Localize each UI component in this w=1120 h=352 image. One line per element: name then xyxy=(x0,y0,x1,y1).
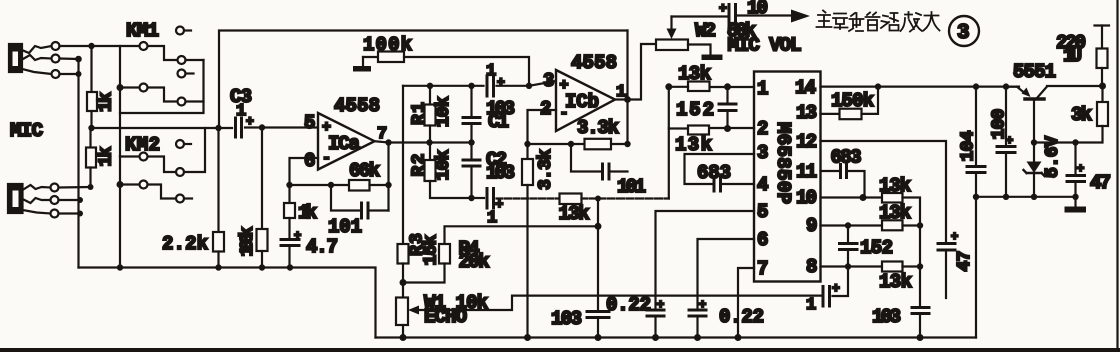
node echo row junction xyxy=(468,195,601,230)
svg-text:20k: 20k xyxy=(459,251,490,273)
svg-text:R2: R2 xyxy=(410,154,430,177)
wire U1a output row xyxy=(375,141,472,142)
svg-text:2: 2 xyxy=(757,118,768,140)
svg-text:1: 1 xyxy=(757,78,768,100)
capacitor 10uF (output) xyxy=(719,0,791,27)
svg-text:5: 5 xyxy=(757,201,768,223)
svg-text:683: 683 xyxy=(697,162,731,184)
capacitor 47uF (5.6V rail) xyxy=(1067,143,1111,197)
resistor 100k (input bias) xyxy=(238,128,268,268)
ground (low rail) xyxy=(1065,197,1087,213)
svg-text:+: + xyxy=(657,298,664,312)
wire low rail (zener node) xyxy=(976,196,1076,198)
wire ground return line xyxy=(79,268,376,338)
wire U1b pin2 inverting input xyxy=(528,110,557,159)
svg-text:+: + xyxy=(246,114,254,129)
switch KM1 open contact stub xyxy=(178,70,194,78)
capacitor 47uF (pin12) xyxy=(938,230,975,298)
resistor 13k (pin1) xyxy=(669,63,711,91)
svg-text:0.22: 0.22 xyxy=(719,306,764,328)
svg-text:+: + xyxy=(951,230,958,244)
svg-text:+: + xyxy=(832,281,840,296)
svg-text:15k: 15k xyxy=(422,234,442,265)
switch KM1 pole1 row xyxy=(92,42,204,64)
node feedback A xyxy=(286,182,391,188)
svg-text:ICa: ICa xyxy=(328,133,360,155)
resistor 13k (pin10) xyxy=(879,175,920,307)
wire KM1 to KM2 link xyxy=(119,113,121,157)
jack J1 sleeve contact xyxy=(22,69,60,78)
svg-text:MIC VOL: MIC VOL xyxy=(728,35,802,57)
svg-text:+: + xyxy=(497,75,505,90)
wire U2 pin9 row xyxy=(821,224,883,226)
capacitor 152 (pins 1-2) xyxy=(676,87,736,128)
svg-text:152: 152 xyxy=(860,237,893,259)
svg-text:6: 6 xyxy=(304,150,315,172)
wire U2 pin2 row xyxy=(709,127,754,129)
svg-text:5.6V: 5.6V xyxy=(1043,136,1063,178)
capacitor 103 (pin8 net to ground) xyxy=(872,306,929,338)
svg-text:5551: 5551 xyxy=(1013,61,1056,83)
svg-text:1: 1 xyxy=(486,62,496,81)
wire KM1 frame xyxy=(120,46,204,113)
circled number 3 xyxy=(949,16,979,46)
jack J1 tip contact xyxy=(22,42,60,53)
capacitor 683 (pin11) xyxy=(821,147,865,198)
resistor 3k xyxy=(1034,86,1108,143)
capacitor 1uF (top coupling) xyxy=(486,62,505,96)
svg-text:2.2k: 2.2k xyxy=(162,233,208,255)
output arrow xyxy=(791,10,810,23)
svg-text:3k: 3k xyxy=(1071,104,1092,126)
svg-text:W2: W2 xyxy=(695,20,716,42)
svg-text:13k: 13k xyxy=(879,271,912,293)
svg-text:3: 3 xyxy=(757,142,768,164)
wire top echo loop xyxy=(219,31,628,129)
capacitor 101 (U1b feedback) xyxy=(571,144,646,198)
transistor Q1 5551 xyxy=(1006,61,1103,143)
svg-text:1: 1 xyxy=(806,296,816,315)
svg-text:M65850P: M65850P xyxy=(772,122,794,204)
svg-text:14: 14 xyxy=(795,77,816,99)
capacitor C3 1uF xyxy=(230,86,254,137)
node U1b feedback junctions xyxy=(524,141,630,147)
node top row junctions xyxy=(427,83,532,89)
svg-text:13k: 13k xyxy=(879,202,911,224)
wire W2 wiper to main output xyxy=(672,15,728,17)
resistor 2.2k xyxy=(162,128,224,268)
svg-text:+: + xyxy=(294,229,301,243)
switch KM1 pole2 row xyxy=(120,84,204,106)
resistor R4 20k xyxy=(403,238,490,283)
node emitter rail junctions xyxy=(1031,139,1079,145)
svg-text:MIC: MIC xyxy=(10,120,43,142)
node pin10/pin11 junction xyxy=(860,194,867,201)
wire jack J2 ring/sleeve to ground bus xyxy=(59,200,81,214)
resistor 3.3k (U1b feedback) xyxy=(528,100,628,150)
svg-text:683: 683 xyxy=(831,147,862,169)
capacitor C1 103 xyxy=(463,86,515,143)
wire mic signal bus xyxy=(92,126,319,129)
svg-text:1: 1 xyxy=(487,209,497,228)
svg-text:150k: 150k xyxy=(831,90,874,112)
node V+ rail junctions xyxy=(875,83,1009,89)
capacitor 1uF (wiper return) xyxy=(806,267,848,316)
wire KM2 left vertical to ground bus xyxy=(119,157,121,268)
svg-text:9: 9 xyxy=(806,215,817,237)
resistor 13k (pin9) xyxy=(879,202,920,230)
wire jack J1 ring/sleeve to ground bus xyxy=(60,59,79,268)
svg-text:12: 12 xyxy=(796,131,817,153)
wire U2 pin10 row xyxy=(821,196,883,198)
svg-text:6: 6 xyxy=(757,229,768,251)
svg-text:ECHO: ECHO xyxy=(424,306,467,328)
switch KM2 pole1 row xyxy=(120,128,205,176)
svg-text:KM1: KM1 xyxy=(126,20,159,42)
switch KM1 actuator contact xyxy=(176,27,191,35)
svg-text:13k: 13k xyxy=(678,63,711,85)
wire top signal row xyxy=(403,81,556,86)
svg-text:101: 101 xyxy=(617,176,646,198)
wire U2 pin1 row xyxy=(710,86,755,88)
capacitor 152 (pins 8-9) xyxy=(840,226,894,267)
svg-text:4: 4 xyxy=(757,174,768,196)
node U1b output xyxy=(624,96,631,103)
svg-text:1: 1 xyxy=(236,102,246,121)
svg-text:5: 5 xyxy=(304,112,315,134)
label main channel preamp (CJK) xyxy=(817,11,940,32)
capacitor 0.22uF (pin5) xyxy=(606,294,664,338)
svg-text:C1: C1 xyxy=(488,111,509,133)
node low rail junctions xyxy=(973,194,1079,200)
capacitor 1uF (echo coupling) xyxy=(472,189,560,229)
wire R4 row xyxy=(445,199,599,245)
node collector xyxy=(1099,83,1106,90)
switch KM2 actuator contact xyxy=(176,140,191,148)
resistor 13k (pin8) xyxy=(879,262,920,294)
resistor R2 10k xyxy=(410,143,472,199)
wire U1b output to W2 xyxy=(615,44,656,100)
node mic bus junctions xyxy=(88,124,265,131)
jack J2 tip contact xyxy=(23,184,59,192)
resistor R 1k (jack2) xyxy=(86,128,117,187)
switch KM2 pole2 row xyxy=(120,181,192,203)
ground (100k) xyxy=(353,57,371,72)
mic jack J1 xyxy=(9,44,22,72)
capacitor C2 103 xyxy=(463,143,515,199)
wire U2 pin12 row xyxy=(821,141,947,243)
capacitor 104 xyxy=(959,87,986,197)
potentiometer W1 10k ECHO xyxy=(396,292,823,338)
op-amp U1a 4558 xyxy=(304,95,387,172)
wire jack J1 tip to node xyxy=(60,45,92,47)
svg-text:13k: 13k xyxy=(879,175,911,197)
svg-text:101: 101 xyxy=(328,216,362,238)
svg-text:4558: 4558 xyxy=(571,52,617,74)
capacitor 101 (U1a feedback) xyxy=(328,185,389,238)
svg-text:R1: R1 xyxy=(410,102,430,125)
wire U2 pin7 row xyxy=(738,268,754,338)
svg-text:ICb: ICb xyxy=(565,91,599,113)
scan border right edge xyxy=(1116,0,1118,348)
resistor 13k (echo path) xyxy=(559,129,669,226)
svg-text:3.3k: 3.3k xyxy=(536,149,556,190)
potentiometer W2 50k MIC VOL xyxy=(656,17,802,57)
wire U2 pin8 row xyxy=(821,265,883,267)
svg-text:1k: 1k xyxy=(97,146,117,166)
capacitor 4.7uF xyxy=(281,218,338,268)
node pin8 junctions xyxy=(845,263,923,269)
svg-text:+: + xyxy=(699,298,706,312)
capacitor 683 (pins 3-4) xyxy=(685,154,755,191)
IC U2 M65850P xyxy=(754,72,821,282)
svg-text:1k: 1k xyxy=(97,92,117,112)
resistor R1 10k xyxy=(410,86,455,143)
svg-text:3.3k: 3.3k xyxy=(577,117,619,139)
resistor 100k (top, to ground) xyxy=(363,34,529,86)
wire jack J2 tip xyxy=(59,186,91,189)
svg-text:4558: 4558 xyxy=(334,95,380,117)
svg-text:13k: 13k xyxy=(675,134,712,156)
svg-text:100k: 100k xyxy=(363,34,412,56)
wire U2 pin5 row xyxy=(656,211,755,309)
node pin1/pin2 network xyxy=(665,83,731,132)
svg-text:10k: 10k xyxy=(434,96,454,127)
svg-text:47: 47 xyxy=(955,251,975,272)
wire bottom ground bus xyxy=(376,336,977,338)
resistor 13k (pin2) xyxy=(669,87,712,156)
svg-text:103: 103 xyxy=(872,306,901,328)
jack J1 ring contact xyxy=(23,55,60,63)
svg-text:+: + xyxy=(719,1,727,16)
capacitor 100uF xyxy=(990,87,1016,197)
resistor 220 1W xyxy=(1056,26,1109,87)
svg-text:1k: 1k xyxy=(298,202,317,224)
svg-text:8: 8 xyxy=(806,256,817,278)
node jack J2 xyxy=(77,184,94,217)
svg-text:13: 13 xyxy=(796,102,817,124)
svg-text:10k: 10k xyxy=(434,149,454,180)
wire U1b output to top echo loop xyxy=(626,31,628,100)
svg-text:100: 100 xyxy=(990,109,1010,140)
capacitor 103 (echo filter) xyxy=(551,226,609,337)
node ground line junctions xyxy=(117,264,293,270)
wire 104 node to ground bus xyxy=(975,197,977,338)
svg-text:+: + xyxy=(1077,162,1084,176)
svg-text:4.7: 4.7 xyxy=(306,236,338,258)
resistor 66k feedback xyxy=(290,143,389,211)
svg-text:11: 11 xyxy=(796,161,817,183)
resistor R 1k (jack1) xyxy=(87,46,117,128)
resistor 1k (U1a ground leg) xyxy=(284,202,317,224)
svg-text:47: 47 xyxy=(1090,172,1111,194)
jack J2 sleeve contact xyxy=(23,210,59,218)
node jack J1 xyxy=(75,43,95,77)
jack J2 ring contact xyxy=(23,196,59,204)
svg-text:7: 7 xyxy=(757,258,768,280)
scan border bottom bar xyxy=(0,348,1120,352)
svg-text:104: 104 xyxy=(959,130,979,161)
op-amp U1b 4558 xyxy=(540,52,626,131)
capacitor 0.22uF (pin6) xyxy=(689,298,764,338)
svg-text:103: 103 xyxy=(486,162,515,184)
ground (W2) xyxy=(688,45,723,61)
resistor R3 15k xyxy=(398,86,442,298)
svg-text:13k: 13k xyxy=(559,203,590,225)
mic jack J2 xyxy=(8,184,23,213)
resistor 150k (pin13) xyxy=(821,87,879,120)
wire V+ rail (pin14) xyxy=(821,85,1020,87)
wire U2 pin6 row xyxy=(698,239,755,309)
node KM2 pole2 xyxy=(117,181,124,188)
svg-text:100k: 100k xyxy=(238,226,258,256)
svg-text:152: 152 xyxy=(676,99,714,121)
wire U1a pin6 inverting input xyxy=(290,158,319,203)
node KM1 pole2 xyxy=(117,84,124,91)
resistor 3.3k (U1b ground leg) xyxy=(522,149,556,338)
svg-text:1U: 1U xyxy=(1063,45,1082,67)
node output row junctions xyxy=(385,139,474,145)
node bottom bus junctions xyxy=(400,334,924,341)
node R3/R4 junction xyxy=(400,279,407,286)
svg-text:66k: 66k xyxy=(349,160,380,182)
node pin9 junctions xyxy=(845,222,923,228)
svg-text:3: 3 xyxy=(957,22,970,45)
svg-text:0.22: 0.22 xyxy=(606,294,651,316)
svg-text:3: 3 xyxy=(543,70,554,92)
zener diode 5.6V xyxy=(1024,136,1064,197)
svg-text:103: 103 xyxy=(551,308,582,330)
svg-text:10: 10 xyxy=(796,187,817,209)
